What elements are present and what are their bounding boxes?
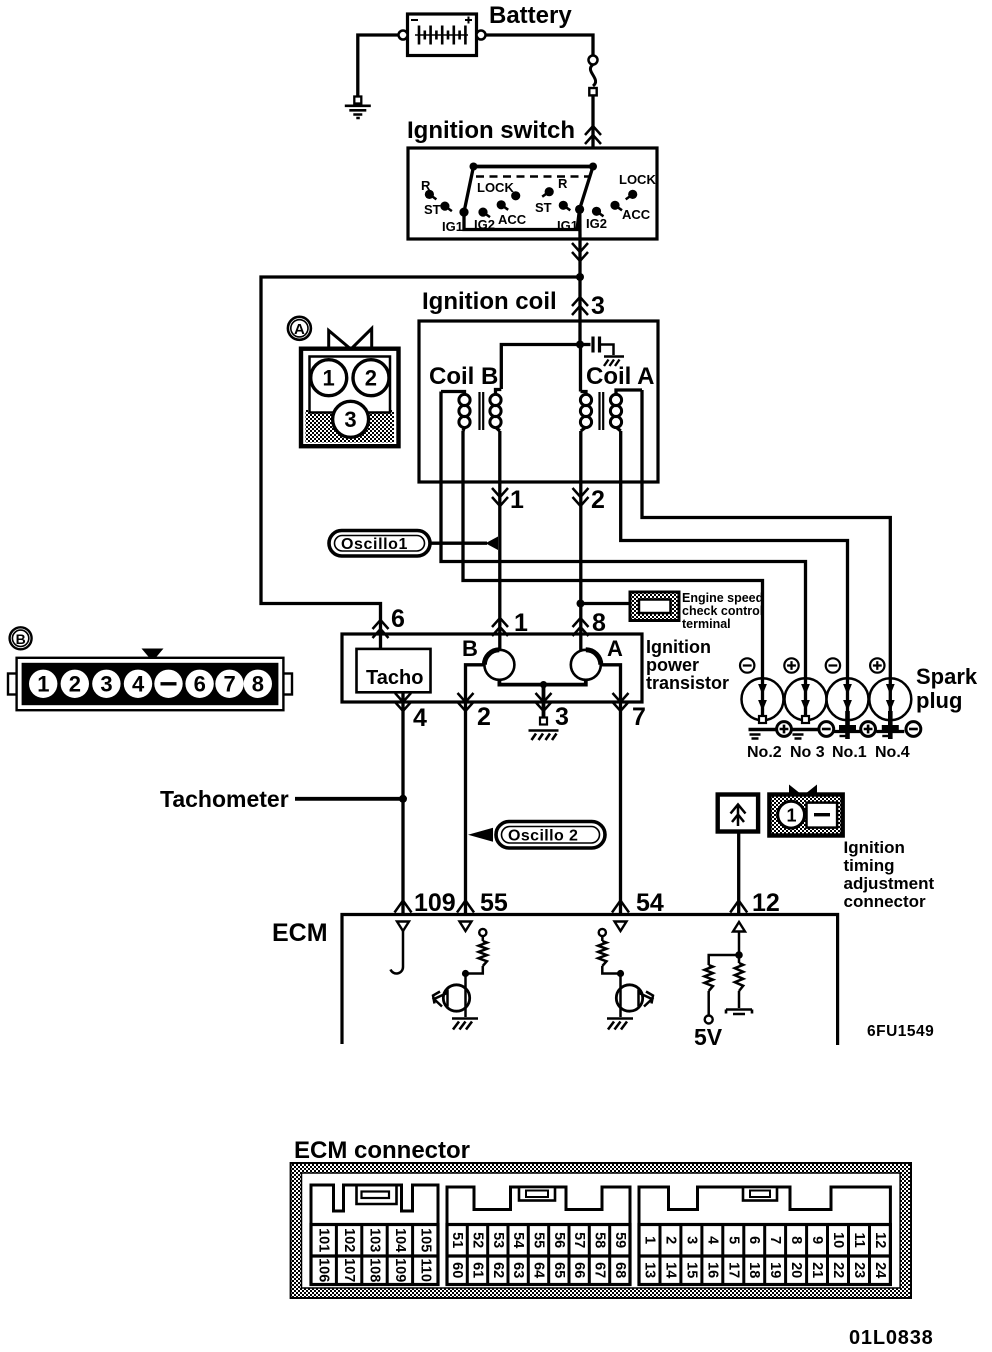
svg-text:59: 59: [612, 1232, 628, 1248]
wire dashed gang line: [476, 175, 590, 177]
svg-text:11: 11: [851, 1233, 867, 1248]
svg-text:109: 109: [414, 889, 456, 917]
terminal IG2: [586, 207, 607, 231]
svg-text:1: 1: [323, 366, 335, 391]
pin 55 internal circuit: [433, 922, 487, 1030]
svg-text:15: 15: [683, 1262, 699, 1278]
svg-text:19: 19: [767, 1262, 783, 1278]
node capacitor junction: [576, 341, 584, 349]
connector B callout: [10, 627, 32, 649]
svg-text:IG1: IG1: [442, 219, 463, 234]
svg-text:12: 12: [872, 1232, 888, 1248]
wire tachometer tap: [295, 797, 403, 801]
svg-text:plug: plug: [916, 688, 962, 713]
wire coil B primary terminal 1 to transistor B: [498, 431, 501, 650]
wire battery negative to ground: [358, 35, 399, 97]
svg-text:9: 9: [809, 1236, 825, 1244]
svg-text:No.1: No.1: [832, 744, 867, 761]
svg-text:ST: ST: [424, 202, 441, 217]
svg-text:connector: connector: [844, 892, 927, 911]
wire B base to terminal 2: [466, 665, 485, 915]
svg-text:108: 108: [367, 1258, 383, 1282]
svg-text:IG2: IG2: [474, 217, 495, 232]
polarity mark above No.2: [740, 658, 754, 672]
svg-text:LOCK: LOCK: [619, 172, 656, 187]
svg-text:A: A: [294, 321, 305, 338]
svg-text:6: 6: [391, 605, 405, 633]
svg-text:105: 105: [417, 1228, 433, 1252]
svg-text:55: 55: [531, 1232, 547, 1248]
terminal 12 entry: [730, 901, 747, 913]
pin group 1-24 profile: [639, 1187, 890, 1225]
svg-text:3: 3: [344, 407, 356, 432]
oscillo1 probe: [329, 531, 498, 557]
svg-text:68: 68: [612, 1262, 628, 1278]
svg-text:Oscillo1: Oscillo1: [341, 536, 408, 553]
ECM connector housing: [291, 1163, 911, 1298]
svg-text:104: 104: [392, 1228, 408, 1252]
svg-text:check control: check control: [682, 604, 763, 618]
terminal ACC: [497, 200, 527, 227]
polarity mark above No.1: [826, 658, 840, 672]
svg-text:LOCK: LOCK: [477, 180, 514, 195]
svg-text:60: 60: [449, 1262, 465, 1278]
wire junction to check terminal: [581, 602, 631, 605]
tacho unit: [357, 649, 431, 692]
label Ignition power transistor: [646, 637, 729, 693]
wire battery positive to fusible link: [486, 35, 594, 56]
svg-text:Tachometer: Tachometer: [160, 786, 289, 812]
svg-text:8: 8: [788, 1236, 804, 1244]
wire junction to ignition coil: [578, 277, 581, 345]
svg-text:adjustment: adjustment: [844, 874, 935, 893]
svg-text:ECM connector: ECM connector: [294, 1137, 470, 1164]
svg-text:6: 6: [746, 1236, 762, 1244]
ignition timing adjustment connector: [769, 785, 842, 836]
svg-text:65: 65: [551, 1262, 567, 1278]
svg-text:Coil A: Coil A: [586, 363, 654, 390]
svg-text:01L0838: 01L0838: [849, 1327, 934, 1349]
polarity mark below No.2: [777, 722, 792, 737]
wire capacitor node to coil A primary: [579, 345, 582, 392]
wire A base to terminal 7: [601, 665, 621, 915]
wire coil A primary terminal 2 to transistor A: [579, 431, 582, 650]
svg-text:A: A: [607, 636, 623, 661]
wire coil A secondary to spark plug No.4: [642, 390, 890, 679]
wire feedback loop to terminal 6: [261, 277, 580, 649]
svg-text:No.2: No.2: [747, 744, 782, 761]
pin 54 internal circuit: [598, 922, 653, 1030]
connector A body: [301, 329, 399, 447]
svg-text:2: 2: [477, 703, 491, 731]
terminal ACC: [610, 201, 650, 222]
pin group 51-68 profile: [447, 1187, 630, 1225]
svg-text:1: 1: [642, 1236, 658, 1244]
wire tacho to terminal 4: [401, 692, 404, 914]
terminal LOCK: [477, 180, 520, 200]
svg-text:12: 12: [752, 889, 780, 917]
svg-text:ACC: ACC: [622, 207, 651, 222]
terminal IG2: [474, 208, 495, 233]
svg-text:B: B: [16, 631, 26, 647]
wire switch bus bar: [474, 165, 594, 169]
svg-text:24: 24: [872, 1262, 888, 1278]
terminal LOCK: [619, 172, 656, 199]
svg-text:Ignition switch: Ignition switch: [407, 117, 575, 144]
spark plug No.3: [785, 678, 827, 738]
svg-text:1: 1: [787, 806, 797, 826]
svg-text:IG1: IG1: [557, 218, 578, 233]
svg-text:61: 61: [470, 1262, 486, 1278]
svg-text:No 3: No 3: [790, 744, 825, 761]
capacitor C1: [580, 337, 624, 367]
svg-text:Ignition coil: Ignition coil: [422, 288, 557, 315]
svg-text:R: R: [421, 178, 431, 193]
svg-text:54: 54: [636, 889, 664, 917]
wire timing connector to terminal 12: [737, 832, 740, 915]
svg-text:17: 17: [725, 1262, 741, 1278]
pin 12 internal circuit: [705, 922, 753, 1024]
transistor Q1 (B): [462, 636, 514, 680]
svg-text:54: 54: [510, 1232, 526, 1248]
svg-text:13: 13: [642, 1262, 658, 1278]
svg-text:ECM: ECM: [272, 919, 328, 947]
wire switch to junction: [578, 239, 581, 277]
pin group 101-110 grid: [311, 1225, 438, 1285]
label Spark plug: [916, 664, 978, 713]
svg-text:7: 7: [767, 1236, 783, 1244]
connector A callout: [288, 317, 311, 340]
svg-text:power: power: [646, 655, 699, 675]
transistor Q2 (A): [571, 636, 623, 680]
terminal IG1: [557, 205, 584, 233]
spark plug No.1: [827, 678, 869, 739]
svg-text:2: 2: [591, 486, 605, 514]
svg-text:B: B: [462, 636, 478, 661]
node tachometer junction: [399, 795, 407, 803]
svg-text:102: 102: [341, 1228, 357, 1252]
terminal 109 entry: [395, 901, 412, 913]
wire coil A secondary to spark plug No.1: [621, 431, 848, 679]
connector B body: [8, 649, 292, 711]
ignition power transistor U1 box: [342, 634, 642, 702]
spark plug No.4: [869, 678, 911, 739]
svg-text:51: 51: [449, 1232, 465, 1248]
svg-text:16: 16: [704, 1262, 720, 1278]
svg-text:3: 3: [555, 703, 569, 731]
svg-text:Battery: Battery: [489, 2, 572, 29]
svg-text:Coil B: Coil B: [429, 363, 498, 390]
svg-text:52: 52: [470, 1232, 486, 1248]
polarity mark above No.3: [784, 658, 798, 672]
terminal ST: [535, 200, 570, 215]
svg-text:67: 67: [592, 1262, 608, 1278]
svg-text:Oscillo 2: Oscillo 2: [508, 828, 578, 845]
svg-text:ST: ST: [535, 200, 552, 215]
pin group 51-68 grid: [447, 1225, 630, 1285]
polarity mark below No.4: [906, 722, 921, 737]
svg-text:Ignition: Ignition: [844, 838, 905, 857]
svg-text:10: 10: [830, 1232, 846, 1248]
svg-text:Spark: Spark: [916, 664, 978, 689]
svg-text:R: R: [558, 176, 568, 191]
wire coil B secondary to spark plug No.2: [463, 431, 763, 679]
svg-text:ACC: ACC: [498, 212, 527, 227]
svg-text:2: 2: [365, 366, 377, 391]
svg-text:7: 7: [224, 672, 236, 697]
svg-text:3: 3: [591, 292, 605, 320]
svg-text:2: 2: [662, 1236, 678, 1244]
svg-text:62: 62: [490, 1262, 506, 1278]
svg-text:5: 5: [725, 1236, 741, 1244]
terminal R: [542, 176, 568, 197]
svg-text:21: 21: [809, 1262, 825, 1278]
terminal 54 entry: [612, 901, 629, 913]
battery B1: [399, 14, 486, 56]
label ignition timing adjustment connector: [844, 838, 935, 911]
label engine speed check control terminal: [682, 591, 763, 631]
engine speed check control terminal: [630, 592, 679, 621]
svg-text:107: 107: [341, 1258, 357, 1282]
svg-text:64: 64: [531, 1262, 547, 1278]
wire fusible link to ignition switch: [591, 96, 594, 149]
svg-text:110: 110: [417, 1258, 433, 1281]
svg-text:4: 4: [413, 704, 427, 732]
ignition coil T1 box: [419, 321, 658, 482]
coil B windings: [441, 390, 501, 432]
svg-text:55: 55: [480, 889, 508, 917]
ground (battery): [345, 97, 371, 119]
svg-text:4: 4: [704, 1236, 720, 1244]
svg-text:22: 22: [830, 1262, 846, 1278]
pin group 1-24 grid: [639, 1225, 890, 1285]
svg-text:Tacho: Tacho: [366, 667, 423, 689]
svg-text:2: 2: [69, 672, 81, 697]
polarity mark below No.3: [819, 722, 834, 737]
svg-text:timing: timing: [844, 856, 895, 875]
svg-text:1: 1: [510, 486, 524, 514]
wire switch rotor linkage: [464, 167, 593, 230]
svg-text:5V: 5V: [694, 1024, 723, 1050]
svg-text:1: 1: [37, 672, 49, 697]
terminal ST: [424, 202, 452, 218]
labels plug numbers: [747, 744, 910, 761]
svg-text:101: 101: [316, 1228, 332, 1252]
node main junction: [576, 273, 584, 281]
terminal IG1: [442, 208, 469, 235]
ground (terminal 3): [529, 718, 559, 741]
wire emitters to terminal 3: [499, 680, 585, 719]
spark plug No.2: [742, 678, 784, 738]
svg-text:Engine speed: Engine speed: [682, 591, 763, 605]
svg-text:3: 3: [100, 672, 112, 697]
svg-text:No.4: No.4: [875, 744, 910, 761]
ECM box: [342, 915, 838, 1046]
coil A windings: [580, 390, 642, 431]
svg-text:Ignition: Ignition: [646, 637, 711, 657]
svg-text:57: 57: [571, 1232, 587, 1248]
svg-text:109: 109: [392, 1258, 408, 1282]
svg-text:IG2: IG2: [586, 216, 607, 231]
svg-text:7: 7: [632, 703, 646, 731]
oscillo2 probe: [468, 822, 605, 849]
svg-text:4: 4: [132, 672, 145, 697]
svg-text:6FU1549: 6FU1549: [867, 1023, 934, 1040]
wire coil B secondary to spark plug No.3: [441, 392, 806, 680]
svg-text:56: 56: [551, 1232, 567, 1248]
timing check box: [718, 795, 758, 832]
terminal 55 entry: [457, 901, 474, 913]
svg-text:63: 63: [510, 1262, 526, 1278]
svg-text:14: 14: [662, 1262, 678, 1278]
svg-text:106: 106: [316, 1258, 332, 1282]
svg-text:20: 20: [788, 1262, 804, 1278]
svg-text:53: 53: [490, 1232, 506, 1248]
pin group 101-110 profile: [311, 1185, 438, 1225]
node terminal 8 junction: [577, 600, 585, 608]
svg-text:103: 103: [367, 1228, 383, 1252]
svg-text:terminal: terminal: [682, 617, 731, 631]
wire switch output: [578, 210, 582, 240]
svg-text:8: 8: [252, 672, 264, 697]
pin 109 internal hook: [391, 922, 410, 974]
wire capacitor node to coil B: [501, 345, 580, 390]
svg-text:3: 3: [683, 1236, 699, 1244]
svg-text:58: 58: [592, 1232, 608, 1248]
svg-text:23: 23: [851, 1262, 867, 1278]
polarity mark below No.1: [861, 722, 876, 737]
svg-text:6: 6: [194, 672, 206, 697]
svg-text:66: 66: [571, 1262, 587, 1278]
fusible link: [589, 56, 598, 96]
ignition switch S1: [408, 148, 657, 239]
polarity mark above No.4: [870, 658, 884, 672]
svg-text:18: 18: [746, 1262, 762, 1278]
svg-text:transistor: transistor: [646, 673, 729, 693]
terminal R: [421, 178, 436, 199]
